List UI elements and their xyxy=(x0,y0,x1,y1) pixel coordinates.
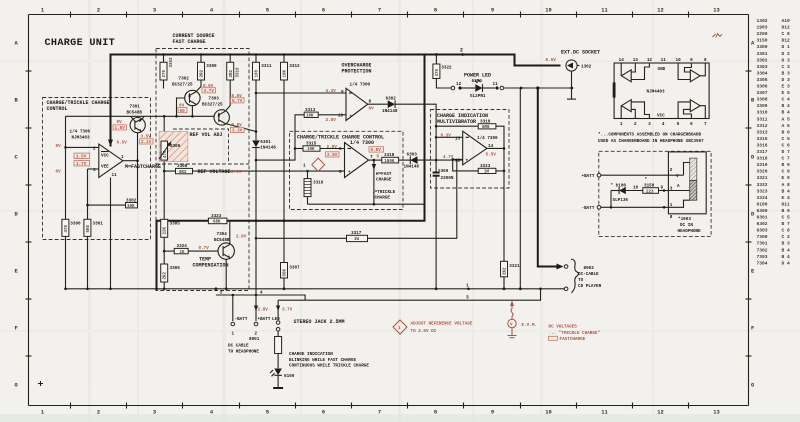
svg-text:C 5: C 5 xyxy=(782,215,791,221)
wire 3324 row xyxy=(164,250,174,252)
svg-text:2.1V: 2.1V xyxy=(141,140,152,145)
wire 6301 column xyxy=(255,80,258,222)
red legend dc voltages xyxy=(549,325,601,343)
svg-text:A: A xyxy=(677,184,680,189)
svg-text:2: 2 xyxy=(97,8,100,14)
IC op-amp top-right xyxy=(678,63,705,82)
wire op3 output row to 6303 xyxy=(374,159,382,161)
svg-text:2.0V: 2.0V xyxy=(231,170,242,175)
svg-text:VCC: VCC xyxy=(101,154,109,159)
op-amp U7300a xyxy=(70,130,125,179)
svg-text:3316: 3316 xyxy=(313,181,324,186)
wire 3302 row xyxy=(86,204,125,207)
label trickle charge xyxy=(372,190,396,201)
svg-text:2K2: 2K2 xyxy=(504,267,508,275)
svg-text:B 3: B 3 xyxy=(782,241,791,247)
potentiometer 3305 REF VOL ADJ xyxy=(159,132,223,162)
dashed box chargerboard xyxy=(599,151,711,236)
svg-text:2: 2 xyxy=(97,410,100,416)
svg-text:7: 7 xyxy=(370,155,373,160)
resistor 3321 xyxy=(501,261,521,290)
svg-text:6.8V: 6.8V xyxy=(371,148,382,153)
svg-text:2: 2 xyxy=(670,168,673,173)
diode 6100 SLP136 on chargerboard xyxy=(611,184,643,208)
svg-text:22K: 22K xyxy=(164,226,168,234)
svg-text:1: 1 xyxy=(620,122,623,127)
dashed box charge indication multivibrator xyxy=(431,110,510,189)
svg-text:3223: 3223 xyxy=(480,164,491,169)
svg-text:... "TRICKLE CHARGE": ... "TRICKLE CHARGE" xyxy=(549,331,601,336)
svg-text:10: 10 xyxy=(545,410,551,416)
svg-text:0.3V: 0.3V xyxy=(441,133,452,138)
svg-text:E 9: E 9 xyxy=(782,175,791,181)
node labels 3 4 1 5 xyxy=(220,283,470,300)
svg-text:9: 9 xyxy=(491,410,494,416)
svg-text:CHARGE: CHARGE xyxy=(376,178,392,183)
wire 7302 emitter to 7303 base row xyxy=(191,106,194,118)
svg-text:1W: 1W xyxy=(354,238,360,242)
wire column 3300 xyxy=(65,147,67,219)
wire op3 output xyxy=(369,159,376,204)
note components assembled on chargerboard xyxy=(598,133,704,144)
svg-text:2.9V: 2.9V xyxy=(327,153,338,158)
svg-text:1: 1 xyxy=(41,410,44,416)
svg-text:7302: 7302 xyxy=(179,77,190,82)
svg-text:D 3: D 3 xyxy=(782,57,791,63)
grid letters left xyxy=(15,41,19,389)
svg-text:E 5: E 5 xyxy=(782,90,791,96)
wire 3319 row xyxy=(436,125,478,127)
svg-text:M=FASTCHARGE: M=FASTCHARGE xyxy=(125,164,161,170)
op-amp U7300b xyxy=(338,83,372,121)
svg-text:3303: 3303 xyxy=(170,57,174,68)
svg-text:+BATT: +BATT xyxy=(582,174,595,179)
svg-text:C 3: C 3 xyxy=(782,64,791,70)
svg-text:0V: 0V xyxy=(56,144,62,149)
wire 3312 column xyxy=(283,80,285,221)
svg-text:1/4 7300: 1/4 7300 xyxy=(70,130,91,135)
svg-text:3306: 3306 xyxy=(170,266,181,271)
svg-text:+: + xyxy=(348,170,351,175)
svg-text:C 2: C 2 xyxy=(782,234,791,240)
svg-text:6300: 6300 xyxy=(757,208,768,214)
parts list xyxy=(757,18,791,266)
svg-text:A 5: A 5 xyxy=(782,123,791,129)
svg-text:13: 13 xyxy=(633,58,639,63)
svg-text:3322: 3322 xyxy=(757,182,768,188)
svg-text:6.5V: 6.5V xyxy=(117,141,128,146)
resistor in LED lead xyxy=(275,331,282,368)
wire +BATT drop xyxy=(255,221,257,321)
svg-text:3312: 3312 xyxy=(289,64,300,69)
svg-text:7: 7 xyxy=(704,122,707,127)
wire 3303 bottom stub xyxy=(163,80,165,89)
svg-text:68K: 68K xyxy=(213,221,221,225)
op-amp U7300c xyxy=(339,143,373,178)
wire columns below resistors to bottom rail xyxy=(65,236,67,288)
wire pin12 row xyxy=(451,158,462,161)
wire 3313 to 3315 node xyxy=(295,115,304,149)
svg-text:3310: 3310 xyxy=(237,67,241,78)
svg-text:9: 9 xyxy=(341,90,344,95)
svg-text:4.7V: 4.7V xyxy=(443,155,454,160)
bottom rail 1 xyxy=(64,287,565,290)
svg-text:2K2: 2K2 xyxy=(164,271,168,279)
svg-text:13: 13 xyxy=(455,136,461,141)
svg-text:3: 3 xyxy=(220,290,223,295)
arrow into op-amp1 xyxy=(108,140,113,147)
resistor 3305 xyxy=(161,219,181,237)
svg-text:DC IN: DC IN xyxy=(680,223,693,228)
svg-text:12: 12 xyxy=(657,8,663,14)
svg-text:1N4148: 1N4148 xyxy=(260,145,276,150)
multivibrator wiring rail xyxy=(435,125,438,289)
svg-text:C 9: C 9 xyxy=(782,169,791,175)
IC op-amp top-left xyxy=(621,63,649,82)
svg-text:CHARGE INDICATION: CHARGE INDICATION xyxy=(289,352,333,357)
wire 3324 to 7304 base xyxy=(188,250,217,252)
arrow on LED wire xyxy=(276,306,280,312)
red 2.9V annotations xyxy=(326,145,340,158)
wire lower link row xyxy=(308,203,425,206)
dashed box charge/trickle charge control 2 xyxy=(290,131,404,209)
wire 7301 emitter to 3302 xyxy=(137,133,139,205)
svg-text:2: 2 xyxy=(460,48,463,54)
svg-text:1/4 7300: 1/4 7300 xyxy=(350,140,374,146)
svg-text:D 1: D 1 xyxy=(782,44,791,50)
svg-text:7303: 7303 xyxy=(209,97,220,102)
svg-text:C 7: C 7 xyxy=(782,156,791,162)
wire overcharge pin9 row xyxy=(256,92,346,94)
svg-text:12: 12 xyxy=(657,410,663,416)
svg-text:D12: D12 xyxy=(782,25,791,31)
svg-text:B 4: B 4 xyxy=(782,247,791,253)
svg-text:HEADPHONE: HEADPHONE xyxy=(678,229,702,234)
svg-text:3311: 3311 xyxy=(261,64,272,69)
svg-text:0V: 0V xyxy=(369,107,375,112)
wire 3223 row xyxy=(453,159,504,171)
wire thick charge current path xyxy=(157,55,425,289)
red annotations current source xyxy=(178,84,244,134)
svg-text:3323: 3323 xyxy=(757,188,768,194)
svg-text:7300: 7300 xyxy=(757,234,768,240)
svg-text:3307: 3307 xyxy=(289,266,300,271)
red 6.8V boxed xyxy=(369,147,384,160)
svg-text:1M: 1M xyxy=(484,171,490,175)
svg-text:3311: 3311 xyxy=(757,116,768,122)
svg-text:270: 270 xyxy=(163,69,167,77)
transistor Q7302 xyxy=(172,77,200,106)
svg-text:STEREO JACK 2.5MM: STEREO JACK 2.5MM xyxy=(294,319,345,325)
svg-text:10K: 10K xyxy=(307,148,315,152)
transistor Q7304 xyxy=(214,232,234,259)
svg-text:10: 10 xyxy=(633,185,639,190)
resistor 3306 xyxy=(161,264,181,282)
svg-text:100K: 100K xyxy=(384,160,395,164)
svg-text:3315: 3315 xyxy=(757,136,768,142)
resistor 3316 xyxy=(304,179,324,197)
svg-text:5: 5 xyxy=(266,8,269,14)
svg-text:BC327/25: BC327/25 xyxy=(202,103,223,108)
grid ticks left xyxy=(26,71,32,356)
resistor 3303 xyxy=(160,57,174,80)
svg-text:ADJUST REFERENCE VOLTAGE: ADJUST REFERENCE VOLTAGE xyxy=(411,322,473,327)
svg-text:C 8: C 8 xyxy=(782,228,791,234)
IC pinout NJM4403 xyxy=(613,63,709,119)
svg-text:7304: 7304 xyxy=(217,232,228,237)
svg-text:CHARGE UNIT: CHARGE UNIT xyxy=(45,38,116,49)
svg-text:9: 9 xyxy=(661,185,664,190)
svg-text:10: 10 xyxy=(676,58,682,63)
svg-text:3324: 3324 xyxy=(177,244,188,249)
capacitor 2300 xyxy=(433,169,454,181)
grid numbers bottom xyxy=(41,410,720,416)
svg-text:6: 6 xyxy=(322,8,325,14)
svg-text:BC327/25: BC327/25 xyxy=(172,83,193,88)
svg-text:3306: 3306 xyxy=(757,84,768,90)
svg-text:3318: 3318 xyxy=(384,153,395,158)
svg-text:9: 9 xyxy=(690,58,693,63)
diode 6303 xyxy=(399,153,463,170)
svg-text:3300: 3300 xyxy=(757,44,768,50)
svg-text:E 4: E 4 xyxy=(782,195,791,201)
svg-text:B 3: B 3 xyxy=(782,70,791,76)
dashed box current source fast charge xyxy=(156,33,249,291)
svg-text:8002: 8002 xyxy=(584,266,595,271)
red diamond adjust note xyxy=(393,320,473,334)
svg-text:8001: 8001 xyxy=(249,337,260,342)
wire 3315 row xyxy=(294,147,345,150)
svg-text:3302: 3302 xyxy=(757,57,768,63)
svg-text:1.7V: 1.7V xyxy=(76,162,87,167)
wire 3309 to 7302 collector xyxy=(196,80,201,92)
svg-text:7: 7 xyxy=(378,410,381,416)
svg-text:C 5: C 5 xyxy=(782,136,791,142)
resistor 3302 xyxy=(126,198,138,209)
wire 3310 to 7303 collector xyxy=(225,80,230,111)
svg-text:8K2: 8K2 xyxy=(179,171,187,175)
svg-text:*: * xyxy=(645,178,648,183)
svg-text:G: G xyxy=(15,383,18,389)
svg-text:B 4: B 4 xyxy=(782,188,791,194)
svg-text:12: 12 xyxy=(647,58,653,63)
svg-text:8: 8 xyxy=(434,8,437,14)
resistor 3311 xyxy=(253,62,273,80)
svg-text:11: 11 xyxy=(112,173,118,178)
wire -BATT drop xyxy=(232,295,234,321)
resistor 3322 xyxy=(433,53,452,88)
LED 6100 xyxy=(270,369,295,388)
svg-text:*1903: *1903 xyxy=(678,217,691,222)
svg-text:9: 9 xyxy=(491,8,494,14)
arrow H=FAST xyxy=(372,164,376,170)
svg-text:C 6: C 6 xyxy=(782,143,791,149)
resistor 3317 xyxy=(347,231,368,242)
arrow to plug xyxy=(557,264,564,270)
svg-text:DC-CABLE: DC-CABLE xyxy=(578,272,599,277)
svg-text:6302: 6302 xyxy=(757,221,768,227)
wire 3316 column xyxy=(307,171,309,204)
svg-text:0.7V: 0.7V xyxy=(199,246,210,251)
EXT DC socket 1302 xyxy=(546,50,601,100)
svg-text:3310: 3310 xyxy=(757,110,768,116)
svg-text:3320: 3320 xyxy=(757,169,768,175)
svg-text:50: 50 xyxy=(180,109,186,114)
svg-text:D 3: D 3 xyxy=(782,77,791,83)
wire column 3301 xyxy=(87,169,89,219)
svg-text:FASTCHARGE: FASTCHARGE xyxy=(560,337,586,342)
svg-text:TO HEADPHONE: TO HEADPHONE xyxy=(228,349,259,354)
wire output node to 3321 xyxy=(487,147,505,261)
svg-text:A 8: A 8 xyxy=(782,182,791,188)
svg-text:2R2: 2R2 xyxy=(230,69,234,77)
svg-text:+: + xyxy=(466,159,469,164)
svg-text:3.3V: 3.3V xyxy=(232,129,243,134)
svg-text:3308: 3308 xyxy=(177,164,188,169)
wire 7303 emitter to 6301 node xyxy=(225,124,256,132)
svg-text:6303: 6303 xyxy=(757,228,768,234)
svg-text:B 4: B 4 xyxy=(782,254,791,260)
svg-text:3: 3 xyxy=(153,8,156,14)
small registration cross xyxy=(38,381,43,386)
svg-text:+: + xyxy=(350,115,353,120)
svg-text:2.9V: 2.9V xyxy=(327,145,338,150)
svg-text:1: 1 xyxy=(303,164,306,169)
svg-text:NJM4403: NJM4403 xyxy=(647,90,665,95)
svg-text:C 4: C 4 xyxy=(782,97,791,103)
grid letters right xyxy=(751,41,755,389)
svg-text:4: 4 xyxy=(260,290,263,295)
svg-text:BLINKING WHILE FAST CHARGE: BLINKING WHILE FAST CHARGE xyxy=(289,358,356,363)
wires resistor tops to rail xyxy=(164,55,285,63)
svg-text:2: 2 xyxy=(634,122,637,127)
wire op-amp1 pin2 xyxy=(64,146,99,149)
wire 3317 row xyxy=(255,160,457,240)
svg-text:13: 13 xyxy=(713,410,719,416)
svg-text:11: 11 xyxy=(493,82,499,87)
svg-text:6: 6 xyxy=(339,147,342,152)
svg-text:USED AS CHARGERBOARD IN HEADPH: USED AS CHARGERBOARD IN HEADPHONE SBC399… xyxy=(598,139,704,144)
svg-text:CONTROL: CONTROL xyxy=(47,106,68,112)
svg-text:3.7V: 3.7V xyxy=(204,89,215,94)
svg-text:5: 5 xyxy=(677,122,680,127)
svg-text:5.5V: 5.5V xyxy=(486,153,497,158)
wire pin10 row xyxy=(318,114,346,116)
diode 6302 xyxy=(382,97,398,115)
svg-text:3307: 3307 xyxy=(757,90,768,96)
svg-text:2.8V: 2.8V xyxy=(326,118,337,123)
red diamond test point xyxy=(312,158,325,171)
resistor 3309 xyxy=(198,62,218,80)
red voltages at connector xyxy=(258,307,293,312)
svg-text:3303: 3303 xyxy=(757,64,768,70)
svg-text:H=FAST: H=FAST xyxy=(376,172,392,177)
svg-text:4.3V: 4.3V xyxy=(326,89,337,94)
wire heavy return to plug xyxy=(538,88,557,267)
svg-text:8: 8 xyxy=(434,410,437,416)
grid ticks right xyxy=(746,71,752,356)
svg-text:7304: 7304 xyxy=(757,260,768,266)
svg-text:F: F xyxy=(751,326,754,332)
svg-text:D 7: D 7 xyxy=(782,149,791,155)
svg-text:GND: GND xyxy=(658,67,666,72)
svg-text:10: 10 xyxy=(545,8,551,14)
svg-text:6: 6 xyxy=(322,410,325,416)
svg-text:10K: 10K xyxy=(284,69,288,77)
svg-text:GL2PR1: GL2PR1 xyxy=(470,94,486,99)
svg-text:1302: 1302 xyxy=(757,18,768,24)
wire pot bottom to ref line xyxy=(163,162,165,172)
svg-text:3323: 3323 xyxy=(211,214,222,219)
svg-text:12: 12 xyxy=(455,159,461,164)
svg-text:3.7V: 3.7V xyxy=(282,307,293,312)
svg-text:3: 3 xyxy=(93,168,96,173)
svg-text:3319: 3319 xyxy=(480,120,491,125)
IC op-amp bottom-right xyxy=(678,100,705,119)
resistor 3308 xyxy=(176,164,193,175)
svg-text:D 2: D 2 xyxy=(782,51,791,57)
svg-text:2: 2 xyxy=(93,147,96,152)
wire op-amp1 pin3 xyxy=(88,168,99,170)
IC pin numbers bottom xyxy=(620,122,707,127)
svg-text:7: 7 xyxy=(378,8,381,14)
svg-text:F: F xyxy=(15,326,18,332)
svg-text:11: 11 xyxy=(661,58,667,63)
svg-text:REF VOLTAGE: REF VOLTAGE xyxy=(198,169,231,175)
svg-text:3313: 3313 xyxy=(305,108,316,113)
svg-text:5: 5 xyxy=(377,154,380,159)
svg-text:VCC: VCC xyxy=(657,114,665,119)
svg-text:0.5V: 0.5V xyxy=(546,58,557,63)
chargerboard +BATT terminal xyxy=(582,173,669,178)
svg-text:* 6100: * 6100 xyxy=(611,184,627,189)
svg-text:1: 1 xyxy=(398,326,401,331)
svg-text:POWER LED: POWER LED xyxy=(464,73,491,79)
svg-text:11: 11 xyxy=(601,410,607,416)
svg-text:100: 100 xyxy=(256,69,260,77)
svg-text:B 9: B 9 xyxy=(782,208,791,214)
headphone jack 1903 box xyxy=(668,152,706,220)
svg-text:.=TRICKLE: .=TRICKLE xyxy=(372,190,396,195)
bottom rail 2 xyxy=(216,288,542,301)
svg-text:BC548B: BC548B xyxy=(214,238,230,243)
svg-text:1N4148: 1N4148 xyxy=(404,164,420,169)
svg-text:EXT.DC SOCKET: EXT.DC SOCKET xyxy=(561,50,600,56)
svg-text:7302: 7302 xyxy=(757,247,768,253)
svg-text:3313: 3313 xyxy=(757,129,768,135)
resistor 3323 xyxy=(208,214,227,225)
svg-text:3305: 3305 xyxy=(170,144,181,149)
svg-text:0V: 0V xyxy=(117,120,123,125)
label 1903 DC IN headphone xyxy=(678,217,702,234)
resistor 3310 xyxy=(227,62,241,80)
svg-text:2.8V: 2.8V xyxy=(258,307,269,312)
svg-text:223: 223 xyxy=(646,190,654,194)
svg-text:1.5V: 1.5V xyxy=(76,155,87,160)
svg-text:2200N: 2200N xyxy=(441,176,454,181)
svg-text:2200: 2200 xyxy=(757,31,768,37)
svg-text:3317: 3317 xyxy=(351,231,362,236)
connector 8001 contacts xyxy=(228,317,280,354)
svg-text:DC VOLTAGES: DC VOLTAGES xyxy=(549,325,578,330)
svg-text:3321: 3321 xyxy=(757,175,768,181)
svg-text:+BATT: +BATT xyxy=(258,317,271,322)
svg-text:6: 6 xyxy=(690,122,693,127)
ground xyxy=(273,387,283,389)
grid numbers top xyxy=(41,8,720,14)
svg-text:3: 3 xyxy=(153,410,156,416)
dashed box charge/trickle charge control 1 xyxy=(43,98,151,240)
